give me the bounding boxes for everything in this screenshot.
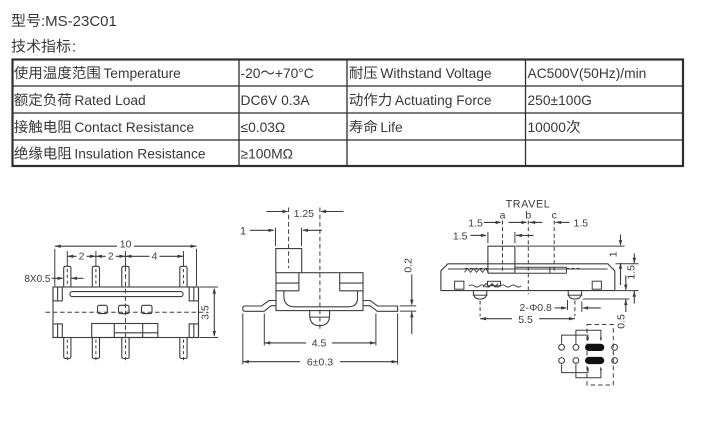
svg-text:c: c	[552, 209, 557, 221]
svg-text:5.5: 5.5	[518, 314, 533, 326]
left view: bottom pin 2	[92, 338, 99, 359]
right view: body top extension	[616, 263, 639, 265]
svg-text::MS-23C01: :MS-23C01	[41, 13, 117, 30]
svg-text:0.5: 0.5	[615, 314, 627, 329]
svg-text:0.2: 0.2	[402, 258, 414, 273]
svg-text:1.25: 1.25	[294, 208, 315, 220]
svg-text:250±100G: 250±100G	[528, 93, 592, 108]
middle view: right cover steps	[340, 282, 363, 284]
right view: side hole right	[592, 281, 601, 289]
right view: travel line a	[502, 221, 504, 274]
svg-text:Actuating Force: Actuating Force	[395, 93, 492, 108]
svg-text:Φ: Φ	[529, 303, 537, 314]
middle view: left terminal leg	[243, 301, 276, 312]
footprint: trace bottom inner	[576, 364, 601, 378]
left view: horizontal center line	[46, 311, 208, 313]
right view: body bottom extension	[616, 290, 639, 292]
svg-text:4.5: 4.5	[312, 338, 327, 350]
spec table grid	[13, 60, 684, 167]
left view: slide slot	[70, 292, 183, 297]
svg-text:Rated Load: Rated Load	[74, 93, 145, 108]
left view: pin 3 center line	[124, 251, 126, 266]
middle view: inner cavity	[284, 291, 358, 307]
svg-text:8X0.5: 8X0.5	[24, 274, 51, 285]
left view: vertical center line	[124, 267, 126, 337]
table row 1	[14, 66, 100, 79]
left view: corner tab bottom-right	[189, 324, 198, 338]
middle view: knob center line	[288, 208, 290, 269]
svg-text:1.5: 1.5	[468, 217, 483, 229]
middle view: dimension 6±0.3	[243, 361, 300, 363]
right view: dimension 1.5 body height	[633, 254, 635, 263]
svg-text:Life: Life	[380, 120, 403, 135]
svg-text:2: 2	[108, 250, 114, 262]
svg-text:4: 4	[152, 250, 158, 262]
left view: dimension 2-2-4 chain	[67, 255, 183, 257]
right view: knob top extension	[516, 245, 625, 247]
footprint: trace top outer	[562, 335, 588, 344]
right view: movable contact	[488, 281, 501, 285]
svg-text:+70°C: +70°C	[275, 66, 314, 81]
right view: inner top line	[448, 268, 608, 270]
svg-text:b: b	[525, 209, 531, 221]
svg-text:Contact Resistance: Contact Resistance	[74, 120, 194, 135]
left view: bottom pin 4	[180, 338, 187, 359]
footprint: slot pad top	[585, 344, 604, 351]
svg-text:1: 1	[240, 225, 246, 237]
right view: dimension 1 knob height	[620, 235, 622, 246]
svg-text:Withstand Voltage: Withstand Voltage	[380, 66, 492, 81]
right view: knob	[488, 246, 515, 273]
svg-text:10000: 10000	[528, 120, 567, 135]
svg-text:1.5: 1.5	[625, 265, 637, 280]
left view: bottom pin 1	[64, 338, 71, 359]
svg-text::: :	[72, 39, 76, 56]
left view: switch body outline	[53, 287, 199, 338]
svg-text:DC6V 0.3A: DC6V 0.3A	[241, 93, 311, 108]
left view: corner tab top-left	[53, 287, 62, 301]
svg-text:AC500V(50Hz)/min: AC500V(50Hz)/min	[528, 66, 647, 81]
left view: corner tab bottom-left	[53, 324, 62, 338]
svg-text:≤0.03Ω: ≤0.03Ω	[241, 120, 286, 135]
footprint: outline dashed	[587, 325, 613, 386]
left view: top pin 3	[122, 266, 129, 287]
footprint: slot pad bottom	[585, 357, 604, 364]
table row 2	[14, 93, 71, 106]
svg-text:0.8: 0.8	[537, 302, 552, 314]
svg-text:6±0.3: 6±0.3	[307, 357, 333, 369]
middle view: body center line	[319, 208, 321, 331]
right view: locating peg left	[473, 291, 486, 299]
left view: top pin 1	[64, 266, 71, 287]
footprint: trace top inner	[576, 330, 601, 343]
svg-text:≥100MΩ: ≥100MΩ	[241, 147, 293, 162]
svg-text:Temperature: Temperature	[103, 66, 181, 81]
right view: hidden slider dashes	[465, 267, 488, 269]
svg-text:1.5: 1.5	[574, 217, 589, 229]
title: model number	[12, 13, 40, 27]
left view: dimension 10	[55, 245, 197, 247]
left view: contact window 2	[119, 305, 130, 313]
left view: corner tab top-right	[189, 287, 198, 301]
middle view: bottom rivet	[310, 311, 330, 326]
table row 4	[14, 146, 71, 159]
svg-text:2-: 2-	[520, 302, 530, 314]
svg-text:2: 2	[79, 250, 85, 262]
middle view: body outline	[276, 273, 363, 311]
left view: pin 2 center line	[95, 251, 97, 266]
footprint: trace bottom outer	[562, 364, 588, 372]
left view: bottom pin 3	[122, 338, 129, 359]
right view: dimension 5.5	[480, 318, 512, 320]
right view: peg bottom extension	[583, 298, 630, 300]
left view: pin 4 center line	[182, 251, 184, 266]
right view: travel line c	[553, 221, 555, 274]
right view: locating peg right	[568, 291, 581, 299]
right view: side hole left	[455, 281, 464, 289]
left view: pin 1 center line	[66, 251, 68, 266]
right view: spring zigzag	[465, 269, 489, 273]
svg-text:1.5: 1.5	[453, 231, 468, 243]
left view: contact window 3	[142, 305, 153, 313]
middle view: knob	[276, 249, 302, 273]
subtitle: technical specs	[12, 39, 71, 53]
middle view: dimension 4.5	[264, 342, 306, 344]
right view: travel line b	[527, 221, 529, 295]
right view: body outline with chamfers	[441, 264, 615, 291]
right view: slider plate	[515, 266, 567, 268]
svg-text:-20: -20	[241, 66, 261, 81]
table row 3	[14, 120, 71, 133]
footprint: pad circles	[559, 344, 565, 350]
svg-text:3.5: 3.5	[199, 305, 211, 320]
left view: dimension 3.5	[200, 286, 219, 288]
left view: top pin 4	[180, 266, 187, 287]
left view: contact window 1	[98, 305, 108, 313]
svg-text:10: 10	[120, 239, 132, 251]
svg-text:a: a	[500, 209, 506, 221]
svg-text:Insulation Resistance: Insulation Resistance	[74, 147, 205, 162]
middle view: right terminal leg	[363, 301, 398, 312]
left view: top pin 2	[92, 266, 99, 287]
left view: actuator block	[92, 324, 158, 338]
right view: dimension 0.5 peg height	[625, 276, 627, 290]
svg-text:1: 1	[608, 251, 620, 257]
middle view: left cover steps	[276, 282, 299, 284]
